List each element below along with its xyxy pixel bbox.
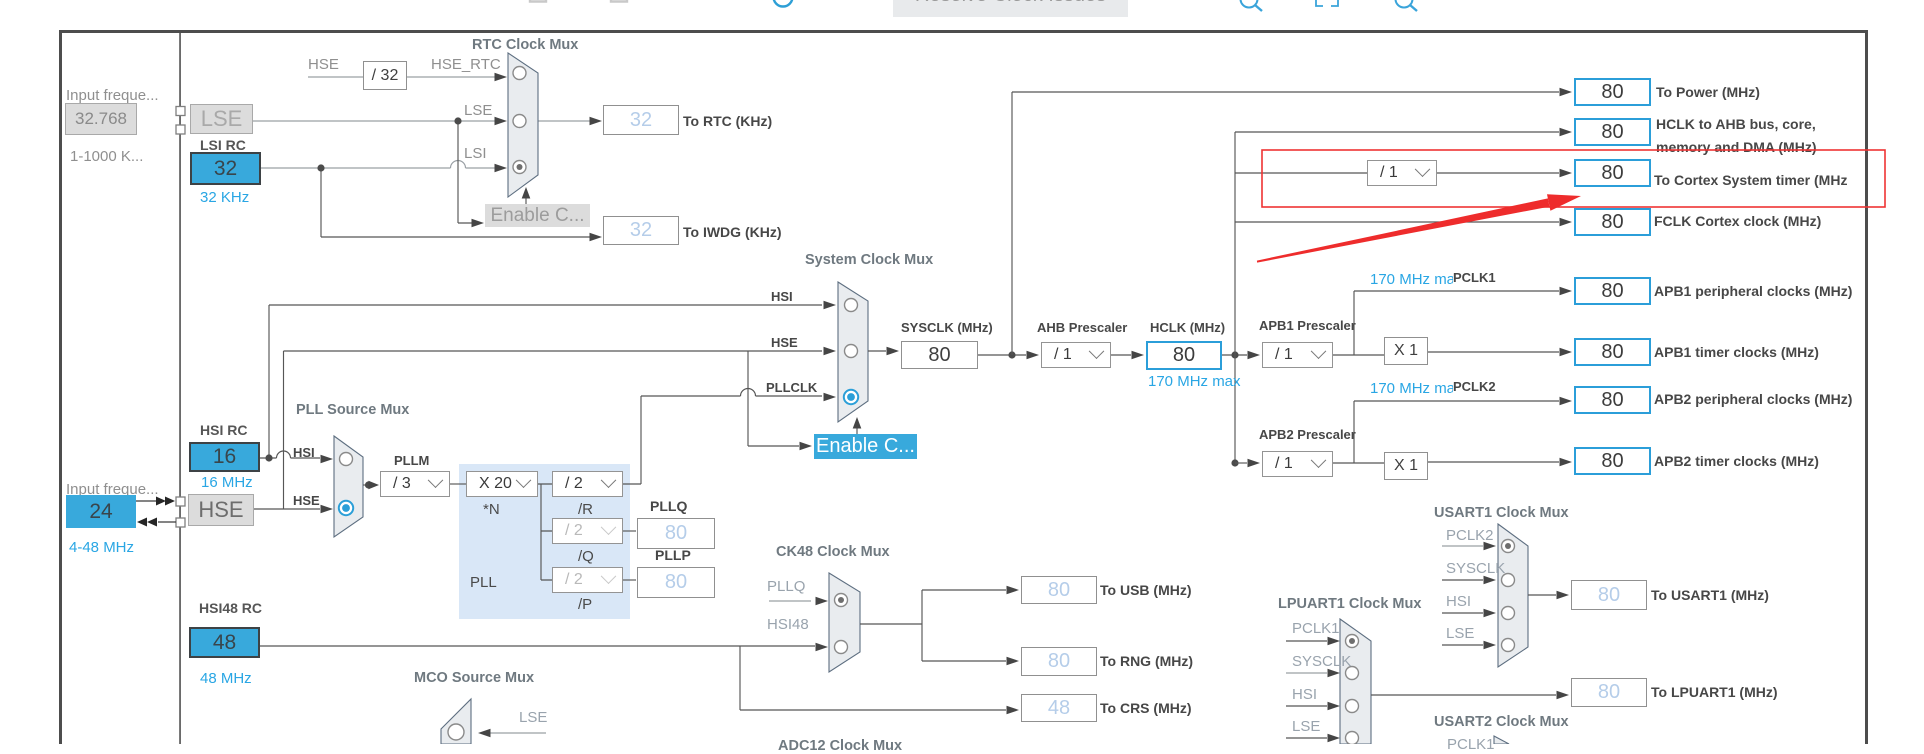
label To RTC (KHz) [683,113,772,129]
RTC mux radio LSE [513,115,526,128]
arrow into system enable box [800,442,813,451]
label 4-48 MHz [69,539,134,556]
USART1 clock mux body [1498,524,1528,667]
label LSI RC [200,137,246,153]
RTC mux radio HSE_RTC [513,67,526,80]
label To Power (MHz) [1656,84,1760,100]
title USART1 Clock Mux [1434,505,1569,521]
label PCLK2 (usart1 input) [1446,527,1494,544]
wire HSI48 branch to CRS [740,646,1006,710]
LPUART1 mux radio SYSCLK [1346,667,1359,680]
To CRS value box [1021,694,1097,722]
APB1 multiplier X1 box [1384,337,1428,365]
PLL block background [459,464,630,619]
label APB1 Prescaler [1259,318,1356,333]
label HSE (pll input) [293,493,320,508]
label SYSCLK (usart1 input) [1446,560,1505,577]
PLLN dropdown X20 [466,471,538,497]
arrow into To RTC box [590,117,603,126]
wire AHB prescaler to HCLK [1111,354,1131,356]
label HSI (pll input) [293,445,315,460]
PLL source mux body [334,436,363,537]
node LSI junction [317,164,324,171]
cortex prescaler dropdown /1 [1367,160,1437,186]
label APB2 timer clocks [1654,453,1819,469]
HCLK vertical bus [1234,132,1236,463]
RTC enable button (disabled) [485,204,590,227]
system mux radio PLLCLK selected [844,390,858,404]
label APB1 peripheral clocks [1654,283,1852,299]
node SYSCLK junction [1008,351,1015,358]
arrow HSE_RTC into RTC mux [495,73,508,82]
label HSI48 (ck48 input) [767,616,809,633]
wire PCLK1 stub to LPUART1 mux [1286,640,1327,642]
label Input frequency (LSE) [66,87,159,104]
red annotation arrow [1257,198,1550,262]
arrow LSI into RTC mux [495,164,508,173]
HCLK value box [1146,341,1222,370]
wire PCLK2 stub to USART1 mux [1442,545,1483,547]
wire APB2 prescaler to X1 [1333,462,1384,464]
wire SYSCLK stub to LPUART1 mux [1286,672,1327,674]
label 1-1000 K... [70,148,143,165]
label PLLQ (ck48 input) [767,578,805,595]
node HSI junction [265,454,272,461]
To LPUART1 value box [1571,678,1647,707]
arrow LSE into RTC mux [495,117,508,126]
wire LSE branch to RTC enable [458,121,472,223]
arrow into To IWDG box [590,233,603,242]
wire APB2 riser to PCLK2 peripheral box [1354,401,1559,463]
label PCLK1 (lpuart1 input) [1292,620,1340,637]
label To LPUART1 (MHz) [1651,684,1778,700]
label HCLK to AHB bus [1656,113,1817,159]
label 170 MHz max (pclk2) [1370,380,1463,397]
label PCLK2 [1453,379,1496,394]
toolbar fit-screen icon [1316,0,1338,6]
wire APB1 prescaler to X1 [1333,354,1384,356]
label APB1 timer clocks [1654,344,1819,360]
label HCLK (MHz) [1150,320,1225,335]
To IWDG value box [603,216,679,245]
label /R [578,501,593,518]
label HSI (sys input) [771,289,793,304]
To Power value box [1574,78,1651,106]
label To RNG (MHz) [1100,653,1193,669]
wire HSI48 to CK48 mux [260,645,815,647]
wire CK48 output split to USB and RNG [860,590,1006,661]
label PLLM [394,453,429,468]
label To IWDG (KHz) [683,224,782,240]
wire HSI stub to LPUART1 mux [1286,705,1327,707]
port HSE upper [176,497,185,506]
PLLR dropdown /2 [552,471,623,497]
PLLP value box [637,567,715,598]
node HCLK junction [1231,351,1238,358]
HCLK to AHB value box [1574,118,1651,146]
To RTC value box [603,105,679,135]
port HSE lower [176,518,185,527]
MCO mux radio LSE [448,724,464,740]
node LSE junction [454,117,461,124]
APB2 timer value box [1574,447,1651,475]
port LSE lower [176,125,185,134]
label 170 MHz max (hclk) [1148,373,1241,390]
HSE source box [188,494,254,526]
PLL mux radio HSE selected [339,501,353,515]
toolbar reload icon (blue circle bottom) [774,0,793,7]
wire CSS branch to system enable [748,351,799,446]
wire APB2 X1 to timer box [1428,461,1559,463]
wire RTC mux output to RTC box [538,120,590,122]
label HSE (rtc) [308,56,339,73]
label To USB (MHz) [1100,582,1192,598]
wire HSE net to PLL mux [254,508,320,510]
label *N [483,501,500,518]
PLLP dropdown /2 disabled [552,567,623,593]
system mux radio HSI [845,299,858,312]
SYSCLK value box [901,341,978,369]
wire LSI branch to IWDG [321,168,590,237]
label /Q [578,548,594,565]
AHB prescaler dropdown /1 [1041,342,1111,368]
system mux radio HSE [845,345,858,358]
wire PLL mux output to PLLM [363,484,368,486]
label PLLQ [650,498,687,514]
label HSI RC [200,422,247,438]
wire PLLQ stub to CK48 mux [769,600,811,602]
MCO source mux body [441,699,471,744]
label HSI48 RC [199,600,262,616]
arrow HSI into PLL mux [321,455,334,464]
USART1 mux radio SYSCLK [1502,574,1515,587]
label 16 MHz [201,474,253,491]
label HSI (usart1 input) [1446,593,1471,610]
arrow HSE into PLL mux [321,505,334,514]
PLLQ dropdown /2 disabled [552,518,623,544]
wire HCLK to FCLK box [1235,221,1559,223]
system clock mux body [838,282,868,422]
To RNG value box [1021,647,1097,676]
label APB2 peripheral clocks [1654,391,1852,407]
label AHB Prescaler [1037,320,1127,335]
arrow PLLCLK into system mux [824,393,837,402]
label To CRS (MHz) [1100,700,1192,716]
label LSI (rtc input) [464,145,487,162]
title LPUART1 Clock Mux [1278,596,1421,612]
LPUART1 mux radio PCLK1 selected [1346,635,1359,648]
label PLL [470,574,497,591]
USART1 mux radio HSI [1502,607,1515,620]
wire LSE to RTC mux [253,120,495,122]
wire HSE input double arrows left [158,521,176,523]
To USB value box [1021,576,1097,604]
LPUART1 clock mux body [1340,619,1371,744]
FCLK value box [1574,208,1651,236]
wire to APB2 prescaler [1235,462,1247,464]
label APB2 Prescaler [1259,427,1356,442]
arrow system enable up into mux [856,428,858,434]
wire HSI stub to USART1 mux [1442,612,1483,614]
wire HSI riser to system mux [269,305,822,458]
arrow HSI into system mux [824,301,837,310]
label To Cortex System timer [1654,172,1847,188]
wire /R output [623,483,641,485]
label HSE (sys input) [771,335,798,350]
HSE input frequency box 24 [66,495,136,528]
LSE input frequency box 32.768 [65,103,137,135]
label /P [578,596,592,613]
wire APB1 riser to PCLK1 peripheral box [1354,291,1559,355]
toolbar icon sliver 2 [611,0,627,2]
wire LSI to RTC mux (with hop over LSE branch) [261,161,495,168]
label PCLK1 [1453,270,1496,285]
wire HCLK to cortex prescaler and To Cortex timer [1235,172,1559,174]
LSE source box [190,104,253,134]
USART1 mux radio PCLK2 selected [1502,540,1515,553]
PLLM dropdown /3 [380,471,450,497]
To Cortex value box [1574,159,1651,187]
CK48 mux radio HSI48 [835,641,848,654]
arrow HSE into system mux [824,347,837,356]
label To USART1 (MHz) [1651,587,1769,603]
toolbar zoom-in icon [1396,0,1413,8]
label 32 KHz [200,189,249,206]
input clock source rail [179,33,181,744]
wire /Q to PLLQ box [623,530,636,532]
divider box /32 [363,61,407,90]
To USART1 value box [1571,580,1647,610]
wire APB1 X1 to timer box [1428,351,1559,353]
label PLLP [655,547,691,563]
wire HCLK to AHB bus box [1235,131,1559,133]
wire PLLCLK from /R to system mux (hop over CSS riser) [641,389,822,484]
label LSE (mco input) [519,709,547,726]
PLLQ value box [637,518,715,549]
port LSE upper [176,107,185,116]
CK48 mux radio PLLQ selected [835,594,848,607]
red annotation rectangle [1262,150,1885,207]
APB2 peripheral value box [1574,386,1651,414]
wire USART1 mux output [1528,594,1556,596]
title ADC12 Clock Mux (clipped) [778,738,902,754]
title USART2 Clock Mux [1434,714,1569,730]
wire *N to /R and risers to /Q /P [538,484,552,580]
label Input frequency (HSE) [66,481,159,498]
USART1 mux radio LSE [1502,639,1515,652]
wire SYSCLK stub to USART1 mux [1442,579,1483,581]
LSI RC box 32 [190,152,261,185]
title CK48 Clock Mux [776,544,890,560]
label 170 MHz max (pclk1) [1370,271,1463,288]
wire LSE stub to LPUART1 mux [1286,737,1327,739]
USART2 clock mux body top sliver [1494,736,1509,744]
wire SYSCLK to AHB prescaler [978,354,1026,356]
label PCLK1 (usart2 input clipped) [1447,736,1495,753]
wire HSE input double arrows right [136,500,157,502]
APB1 peripheral value box [1574,277,1651,305]
label PLLCLK [766,380,817,395]
label HSE_RTC [431,56,501,73]
LPUART1 mux radio LSE [1346,732,1359,745]
RTC clock mux body [508,53,538,197]
wire HCLK to APB1 prescaler [1222,354,1247,356]
label LSE (usart1 input) [1446,625,1474,642]
wire LSE stub to USART1 mux [1442,644,1483,646]
label 48 MHz [200,670,252,687]
Resolve Clock Issues button [893,0,1128,17]
CK48 clock mux body [829,573,860,672]
label SYSCLK (MHz) [901,320,993,335]
wire SYSCLK riser to To Power [1012,92,1559,355]
label LSE (rtc input) [464,102,492,119]
HSI48 RC box 48 [189,627,260,658]
title RTC Clock Mux [472,37,578,53]
wire PLLM to *N [450,483,466,485]
wire /P to PLLP box [623,579,636,581]
wire HSE riser to system mux [284,351,823,509]
title MCO Source Mux [414,670,534,686]
system enable button (blue) [814,434,917,459]
RTC mux radio LSI selected [513,161,526,174]
arrow RTC enable up into mux [525,198,527,204]
label FCLK Cortex clock (MHz) [1654,213,1821,229]
node APB2 junction [1231,459,1238,466]
APB1 timer value box [1574,338,1651,366]
wire system mux output to SYSCLK [868,350,886,352]
PLL mux radio HSI [340,453,353,466]
wire HSE to /32 divider [308,76,495,78]
title PLL Source Mux [296,402,409,418]
APB1 prescaler dropdown /1 [1262,342,1333,368]
label LSE (lpuart1 input) [1292,718,1320,735]
wire LPUART1 mux output [1371,694,1556,696]
wire LSE stub to MCO mux [490,732,546,734]
APB2 multiplier X1 box [1384,452,1428,480]
title System Clock Mux [805,252,933,268]
arrow into RTC enable box [472,219,485,228]
HSI RC box 16 [189,442,260,472]
toolbar zoom-out icon [1241,0,1258,8]
label HSI (lpuart1 input) [1292,686,1317,703]
APB2 prescaler dropdown /1 [1262,451,1333,477]
wire HSI net to PLL mux (hop over HSE riser) [260,451,320,458]
label SYSCLK (lpuart1 input) [1292,653,1351,670]
LPUART1 mux radio HSI [1346,700,1359,713]
